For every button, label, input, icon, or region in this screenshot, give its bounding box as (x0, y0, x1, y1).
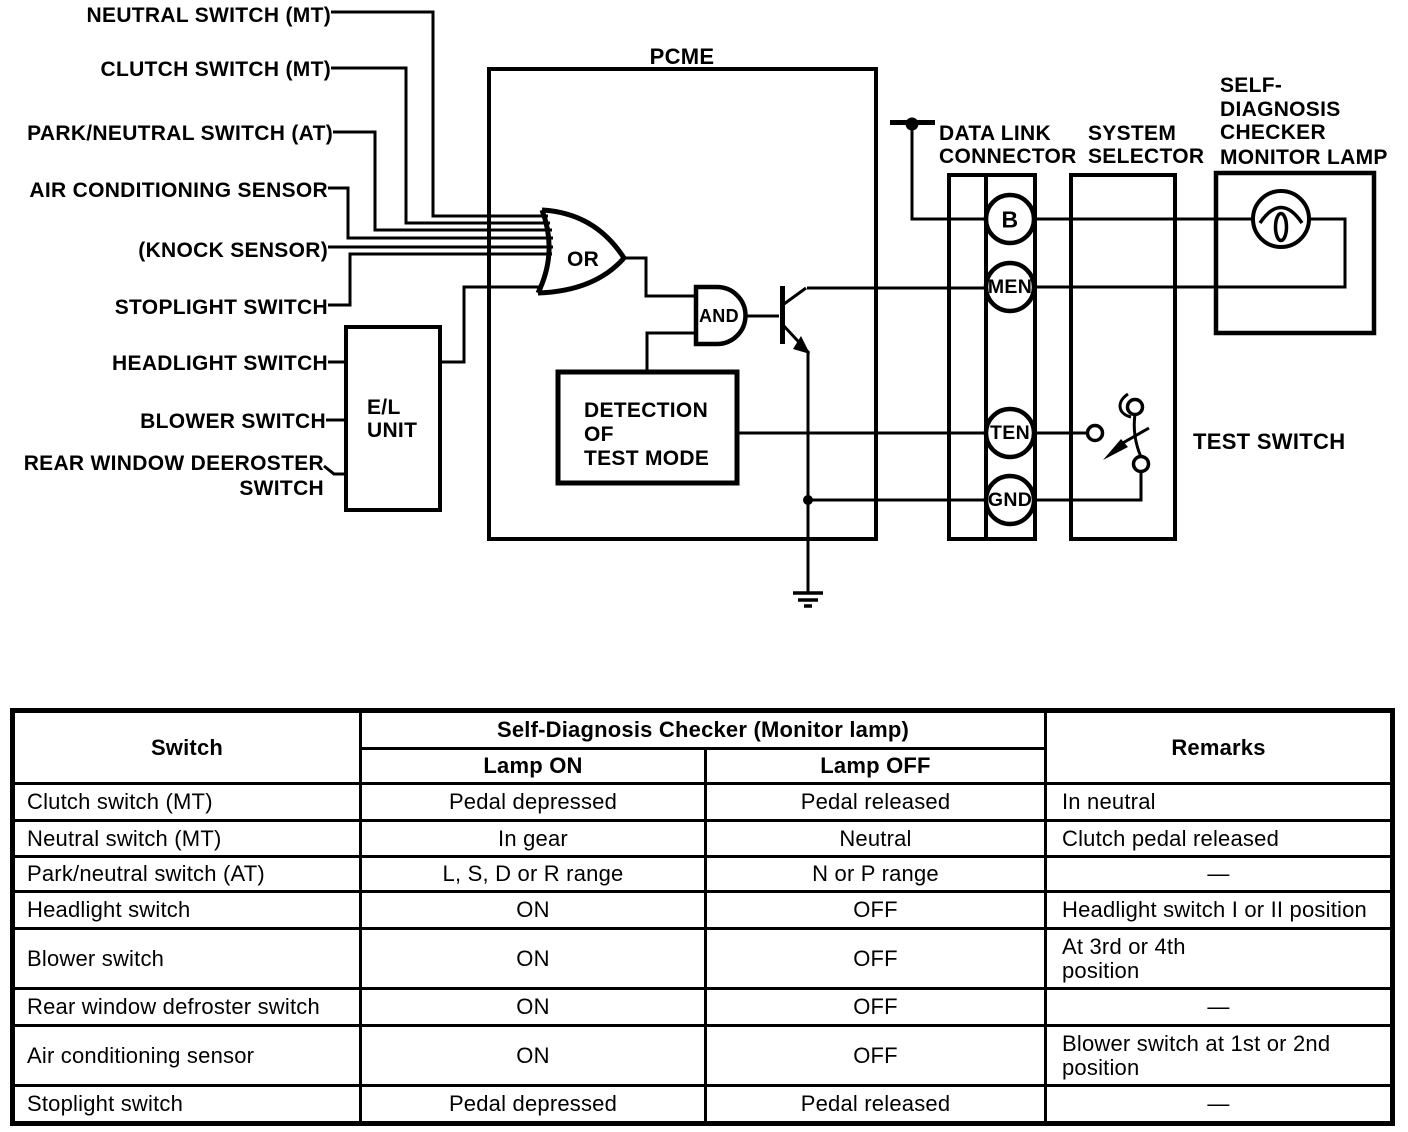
svg-text:HEADLIGHT SWITCH: HEADLIGHT SWITCH (112, 352, 328, 375)
svg-text:TEST SWITCH: TEST SWITCH (1193, 429, 1345, 454)
svg-text:GND: GND (988, 489, 1032, 511)
svg-text:MEN: MEN (988, 276, 1032, 298)
svg-text:SELECTOR: SELECTOR (1088, 145, 1204, 168)
svg-text:NEUTRAL SWITCH (MT): NEUTRAL SWITCH (MT) (87, 4, 331, 27)
svg-text:OF: OF (584, 423, 614, 446)
svg-text:UNIT: UNIT (367, 419, 417, 442)
svg-text:DETECTION: DETECTION (584, 399, 708, 422)
svg-text:E/L: E/L (367, 396, 401, 419)
svg-text:B: B (1002, 207, 1019, 233)
svg-text:DIAGNOSIS: DIAGNOSIS (1220, 98, 1341, 121)
svg-text:AIR CONDITIONING SENSOR: AIR CONDITIONING SENSOR (29, 179, 328, 202)
svg-text:TEST MODE: TEST MODE (584, 447, 709, 470)
svg-text:BLOWER SWITCH: BLOWER SWITCH (140, 410, 326, 433)
svg-text:CHECKER: CHECKER (1220, 121, 1326, 144)
svg-text:STOPLIGHT SWITCH: STOPLIGHT SWITCH (115, 296, 328, 319)
svg-text:TEN: TEN (990, 422, 1030, 444)
svg-text:(KNOCK SENSOR): (KNOCK SENSOR) (138, 239, 328, 262)
svg-text:SWITCH: SWITCH (239, 477, 324, 500)
svg-text:CONNECTOR: CONNECTOR (939, 145, 1077, 168)
svg-text:PCME: PCME (650, 44, 715, 69)
svg-text:DATA LINK: DATA LINK (939, 122, 1051, 145)
svg-text:OR: OR (567, 248, 599, 271)
svg-text:AND: AND (699, 306, 739, 326)
svg-text:MONITOR LAMP: MONITOR LAMP (1220, 146, 1388, 169)
svg-text:SYSTEM: SYSTEM (1088, 122, 1176, 145)
svg-text:SELF-: SELF- (1220, 74, 1282, 97)
svg-text:CLUTCH SWITCH (MT): CLUTCH SWITCH (MT) (100, 58, 331, 81)
svg-text:REAR WINDOW DEEROSTER: REAR WINDOW DEEROSTER (24, 452, 324, 475)
svg-text:PARK/NEUTRAL SWITCH (AT): PARK/NEUTRAL SWITCH (AT) (27, 122, 333, 145)
